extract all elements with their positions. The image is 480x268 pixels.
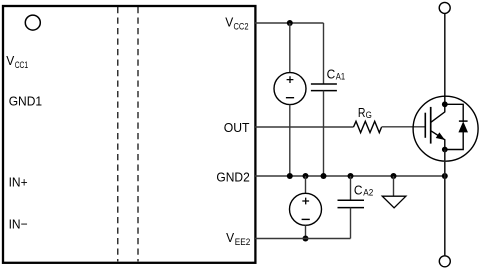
minus sign source 1 bbox=[286, 97, 294, 99]
svg-text:A2: A2 bbox=[363, 187, 373, 198]
svg-text:GND2: GND2 bbox=[216, 170, 249, 185]
wire OUT to RG bbox=[255, 126, 354, 128]
svg-text:A1: A1 bbox=[336, 71, 345, 82]
svg-text:EE2: EE2 bbox=[235, 237, 251, 248]
ground bbox=[382, 196, 406, 208]
isolation barrier dashed line left bbox=[117, 7, 119, 261]
plus sign source 1 bbox=[287, 76, 294, 83]
node emitter dot bbox=[442, 147, 448, 153]
wire VCC2 horizontal bbox=[255, 22, 324, 24]
node junction dot source2 top bbox=[303, 173, 309, 179]
svg-text:G: G bbox=[366, 110, 372, 121]
svg-text:IN−: IN− bbox=[9, 217, 28, 232]
transistor Q1 IGBT circle bbox=[413, 96, 478, 161]
node junction dot ground bbox=[391, 173, 397, 179]
svg-text:V: V bbox=[226, 230, 234, 245]
voltage source VCC2 supply circle bbox=[274, 73, 306, 105]
svg-text:CC2: CC2 bbox=[234, 22, 249, 33]
svg-text:V: V bbox=[225, 14, 233, 29]
capacitor CA2 bbox=[338, 200, 365, 207]
IGBT collector angled lead bbox=[431, 104, 445, 122]
isolation barrier dashed line right bbox=[137, 7, 139, 261]
wire diode branch bbox=[445, 104, 463, 149]
node junction dot source2 bottom bbox=[303, 236, 309, 242]
terminal top (collector) bbox=[439, 2, 450, 13]
wire emitter down bbox=[444, 150, 446, 256]
wire CA2 top lead bbox=[350, 176, 352, 200]
pin 1 indicator bbox=[25, 15, 40, 30]
diode D1 triangle bbox=[459, 123, 467, 132]
svg-text:IN+: IN+ bbox=[9, 174, 28, 189]
IGBT emitter arrow bbox=[436, 133, 444, 139]
IGBT gate bar bbox=[424, 113, 426, 138]
svg-text:GND1: GND1 bbox=[9, 93, 42, 108]
terminal bottom (emitter) bbox=[439, 256, 450, 267]
wire collector bbox=[444, 14, 446, 104]
voltage source VEE2 supply circle bbox=[290, 193, 322, 225]
node junction dot CA2 top bbox=[348, 173, 354, 179]
wire CA2 bottom lead bbox=[350, 208, 352, 239]
svg-text:V: V bbox=[6, 53, 14, 68]
wire GND2 horizontal bbox=[255, 175, 445, 177]
svg-text:OUT: OUT bbox=[224, 120, 250, 135]
node collector dot bbox=[442, 101, 448, 107]
svg-text:CC1: CC1 bbox=[15, 60, 29, 71]
IGBT channel bar bbox=[430, 107, 432, 144]
svg-text:R: R bbox=[358, 105, 366, 120]
wire RG to IGBT gate bbox=[382, 126, 426, 128]
IC body U1 bbox=[3, 6, 255, 263]
wire source VEE2 bottom lead bbox=[305, 225, 307, 238]
node junction dot IGBT emitter bbox=[442, 173, 448, 179]
node junction dot VCC2/source bbox=[287, 20, 293, 26]
node junction dot CA1 bottom bbox=[321, 173, 327, 179]
svg-text:C: C bbox=[354, 183, 363, 198]
svg-text:C: C bbox=[327, 67, 336, 82]
resistor RG bbox=[354, 121, 382, 132]
wire ground stub bbox=[393, 176, 395, 196]
wire source VCC2 bottom lead bbox=[289, 105, 291, 176]
wire VEE2 horizontal bbox=[255, 238, 351, 240]
minus sign source 2 bbox=[302, 218, 310, 220]
IGBT emitter angled lead bbox=[431, 131, 445, 150]
wire CA1 top lead bbox=[323, 23, 325, 84]
wire source VEE2 top lead bbox=[305, 176, 307, 193]
diode D1 cathode bar bbox=[459, 120, 468, 122]
wire CA1 bottom lead bbox=[323, 91, 325, 176]
wire source VCC2 top lead bbox=[289, 23, 291, 73]
capacitor CA1 bbox=[311, 84, 337, 91]
node junction dot source1 bottom bbox=[287, 173, 293, 179]
plus sign source 2 bbox=[302, 198, 309, 205]
